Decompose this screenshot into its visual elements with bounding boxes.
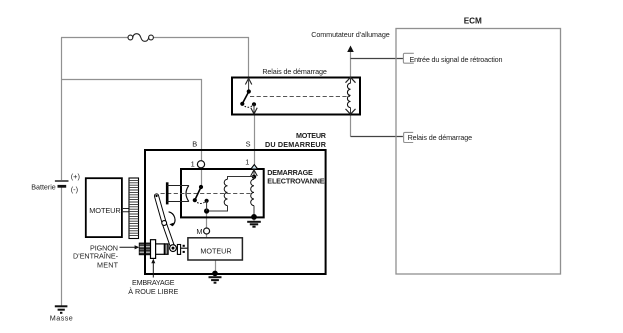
svg-text:MOTEUR: MOTEUR bbox=[89, 206, 121, 215]
svg-text:1: 1 bbox=[191, 160, 195, 169]
svg-text:ECM: ECM bbox=[464, 17, 482, 26]
svg-text:(-): (-) bbox=[71, 185, 78, 194]
svg-text:Relais de démarrage: Relais de démarrage bbox=[262, 67, 327, 76]
svg-text:MOTEUR: MOTEUR bbox=[200, 247, 231, 256]
svg-text:Commutateur d’allumage: Commutateur d’allumage bbox=[311, 30, 390, 39]
svg-text:S: S bbox=[246, 139, 251, 148]
svg-text:Batterie: Batterie bbox=[31, 183, 56, 192]
svg-text:(+): (+) bbox=[71, 172, 80, 181]
svg-text:À ROUE LIBRE: À ROUE LIBRE bbox=[128, 287, 178, 296]
svg-text:1: 1 bbox=[245, 158, 249, 167]
svg-text:M: M bbox=[196, 227, 202, 236]
svg-text:Entrée du signal de rétroactio: Entrée du signal de rétroaction bbox=[410, 55, 503, 64]
svg-text:Masse: Masse bbox=[50, 314, 73, 323]
svg-text:B: B bbox=[192, 139, 197, 148]
svg-text:MENT: MENT bbox=[97, 261, 119, 270]
svg-text:D’ENTRAÎNE-: D’ENTRAÎNE- bbox=[73, 252, 119, 261]
svg-text:DU DEMARREUR: DU DEMARREUR bbox=[265, 140, 327, 149]
svg-text:Relais de démarrage: Relais de démarrage bbox=[408, 133, 473, 142]
svg-text:ELECTROVANNE: ELECTROVANNE bbox=[267, 176, 325, 185]
